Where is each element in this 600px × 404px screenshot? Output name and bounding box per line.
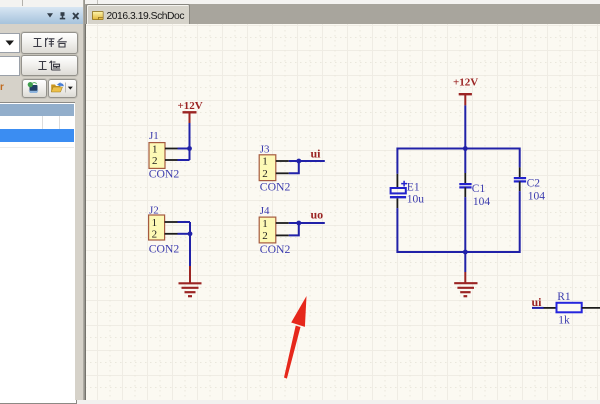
svg-text:C2: C2	[527, 177, 541, 189]
svg-text:J4: J4	[260, 205, 270, 217]
wire bottom rail to ground	[464, 252, 466, 272]
panel header gradient bar	[0, 7, 83, 24]
connector J2	[149, 205, 180, 256]
top rail wire	[397, 148, 519, 150]
editor tab bar	[85, 4, 600, 25]
capacitor C1	[459, 173, 490, 208]
wire C2 top	[519, 148, 521, 168]
svg-text:E1: E1	[407, 181, 420, 193]
junction at J2 pin2	[188, 231, 193, 236]
row 3: small orange r + icon buttons	[0, 82, 4, 93]
project list	[0, 102, 77, 404]
power +12V (capacitor bank)	[453, 77, 478, 106]
connector J1	[149, 130, 180, 181]
svg-text:uo: uo	[311, 208, 324, 222]
top strip	[0, 0, 600, 7]
wire J3 pin1 net ui	[289, 160, 325, 162]
junction at J1 pin1	[187, 146, 192, 151]
svg-text:1k: 1k	[558, 314, 570, 326]
row 1: combo dropdown + workbench button	[0, 33, 20, 53]
panel/editor splitter	[75, 101, 83, 400]
svg-text:2: 2	[262, 230, 268, 242]
svg-text:ui: ui	[532, 295, 543, 309]
svg-text:CON2: CON2	[149, 168, 180, 181]
svg-text:J3: J3	[260, 144, 270, 156]
svg-text:+12V: +12V	[178, 100, 203, 112]
wire C1 top	[464, 149, 466, 174]
wire C1 bottom	[464, 197, 466, 252]
wire J3 pin2 loop	[289, 161, 299, 173]
wire C2 bottom	[519, 191, 521, 253]
junction at J3 pin1	[296, 159, 301, 164]
wire ui stub to R1	[532, 307, 544, 309]
svg-text:104: 104	[473, 196, 491, 208]
svg-text:10u: 10u	[407, 193, 425, 205]
svg-text:CON2: CON2	[260, 181, 291, 194]
svg-text:ui: ui	[311, 147, 322, 161]
svg-text:1: 1	[152, 143, 158, 155]
ground under capacitor bank	[454, 272, 477, 296]
tab document icon	[92, 11, 104, 21]
svg-text:C1: C1	[472, 183, 486, 195]
junction at J4 pin1	[296, 221, 301, 226]
wire J2 pin2 to junction	[178, 233, 191, 235]
junction bottom rail	[463, 250, 468, 255]
svg-text:1: 1	[262, 156, 268, 168]
resistor R1	[544, 291, 600, 326]
junction top rail	[463, 146, 468, 151]
wire J4 pin1 net uo	[289, 222, 325, 224]
power +12V (left, J1 branch)	[178, 100, 203, 123]
svg-text:1: 1	[152, 217, 158, 229]
schematic canvas	[85, 24, 600, 400]
capacitor C2	[514, 167, 546, 202]
svg-text:104: 104	[528, 190, 546, 202]
wire +12V down to J1 pin2 corner	[189, 123, 191, 160]
ground under J2	[179, 266, 202, 296]
svg-text:R1: R1	[557, 291, 571, 303]
wire J1 pin1 to junction	[178, 148, 190, 150]
row 2: textbox + project button	[0, 56, 20, 76]
svg-text:CON2: CON2	[260, 243, 291, 256]
left panel background	[0, 7, 83, 400]
wire E1 top	[396, 148, 398, 174]
工程 glyphs	[38, 60, 61, 71]
bottom rail wire	[397, 251, 519, 253]
wire J2 pin1 to corner	[178, 221, 191, 223]
svg-text:+12V: +12V	[453, 77, 478, 89]
wire +12V to top rail	[464, 105, 466, 148]
工作台 glyphs	[33, 37, 67, 48]
svg-text:1: 1	[262, 218, 268, 230]
wire J4 pin2 loop	[289, 223, 299, 235]
svg-text:CON2: CON2	[149, 243, 180, 256]
capacitor E1	[390, 174, 424, 208]
wire E1 bottom	[396, 208, 398, 253]
connector J4	[259, 205, 290, 256]
wire J2 vertical down to ground	[189, 222, 191, 266]
svg-text:2: 2	[152, 229, 158, 241]
header icons	[0, 7, 83, 24]
svg-text:J1: J1	[149, 130, 159, 142]
svg-text:2: 2	[262, 168, 268, 180]
svg-text:2: 2	[152, 155, 158, 167]
red arrow annotation	[284, 296, 307, 379]
wire J1 pin2 to corner	[178, 159, 190, 161]
connector J3	[259, 144, 290, 194]
